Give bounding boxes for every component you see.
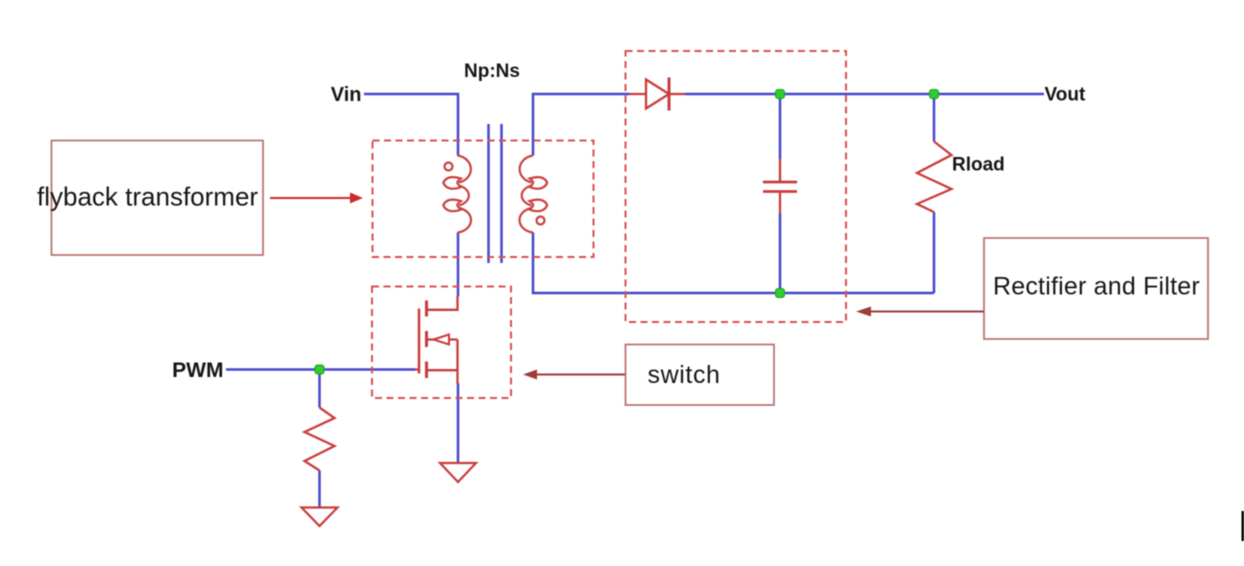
svg-text:PWM: PWM [172, 359, 223, 382]
svg-text:Vin: Vin [331, 84, 362, 106]
svg-text:Np:Ns: Np:Ns [464, 61, 520, 82]
svg-text:Vout: Vout [1045, 85, 1086, 106]
svg-text:Rectifier and Filter: Rectifier and Filter [993, 273, 1200, 301]
svg-text:switch: switch [648, 361, 721, 389]
svg-text:flyback transformer: flyback transformer [37, 182, 258, 212]
svg-text:Rload: Rload [952, 155, 1005, 176]
